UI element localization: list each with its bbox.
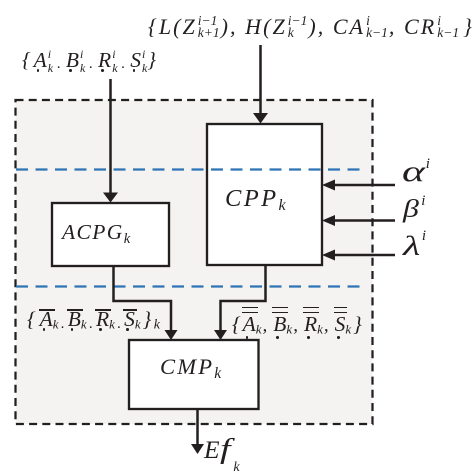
node single-bar set label into CMP left [27,309,160,331]
wire: lambda input arrow [332,254,395,257]
outer dashed boundary (pipeline stage box) [16,100,373,424]
wire: ACPG_k output to CMP_k [114,266,172,332]
block ACPG_k [52,203,169,266]
block CMP_k [129,340,259,409]
block label CPP_k [225,187,286,212]
node {L(Z),H(Z),CA,CR} top input label [148,15,474,38]
wire: arrow from top label into CPP_k [259,45,262,116]
node {A'_k,B'_k,R'_k,S'_k} top-left input label [22,47,156,76]
wire: arrow from {A,B,R,S} label into ACPG_k [109,79,112,195]
block CPP_k [207,124,322,265]
block label ACPG_k [62,222,130,244]
node Ef_k output label [204,436,234,464]
wire: CPP_k output to CMP_k [221,265,266,332]
node alpha^i input label [402,157,430,187]
wire: alpha input arrow [332,184,395,187]
node beta^i input label [403,196,425,222]
wire: CMP_k output arrow Ef [196,409,199,445]
blue dashed stage line 2 [16,285,365,287]
blue dashed stage line 1 [16,168,360,170]
node double-bar set label into CMP right [232,314,362,336]
block label CMP_k [160,356,221,379]
node lambda^i input label [403,232,426,260]
wire: beta input arrow [332,219,395,222]
